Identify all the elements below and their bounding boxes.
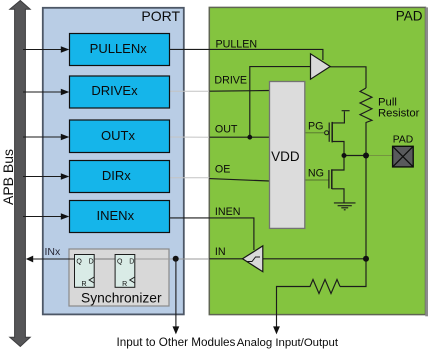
svg-text:DRIVE: DRIVE	[214, 74, 247, 86]
svg-text:Input to Other Modules: Input to Other Modules	[117, 336, 236, 349]
svg-text:OE: OE	[215, 164, 230, 176]
svg-text:VDD: VDD	[271, 149, 300, 164]
svg-text:R: R	[81, 281, 86, 288]
svg-text:INEN: INEN	[215, 206, 241, 218]
svg-text:Q: Q	[76, 259, 82, 266]
svg-text:INENx: INENx	[97, 208, 135, 223]
svg-text:PULLENx: PULLENx	[90, 41, 148, 56]
svg-text:DIRx: DIRx	[102, 168, 131, 183]
svg-text:NG: NG	[308, 167, 324, 179]
svg-text:DRIVEx: DRIVEx	[91, 83, 138, 98]
svg-text:OUT: OUT	[215, 123, 238, 135]
svg-text:Resistor: Resistor	[378, 108, 420, 120]
svg-text:OUTx: OUTx	[101, 128, 135, 143]
svg-text:PG: PG	[308, 121, 323, 133]
svg-text:APB Bus: APB Bus	[0, 149, 16, 205]
svg-text:D: D	[129, 259, 134, 266]
svg-text:Q: Q	[117, 259, 123, 266]
svg-text:PAD: PAD	[393, 135, 413, 146]
svg-text:R: R	[122, 281, 127, 288]
svg-text:D: D	[89, 259, 94, 266]
svg-text:INx: INx	[45, 246, 62, 258]
svg-text:Synchronizer: Synchronizer	[81, 290, 162, 305]
svg-text:PORT: PORT	[141, 8, 180, 24]
svg-text:Analog Input/Output: Analog Input/Output	[237, 337, 339, 349]
svg-text:PAD: PAD	[396, 9, 423, 24]
svg-text:IN: IN	[215, 246, 226, 258]
